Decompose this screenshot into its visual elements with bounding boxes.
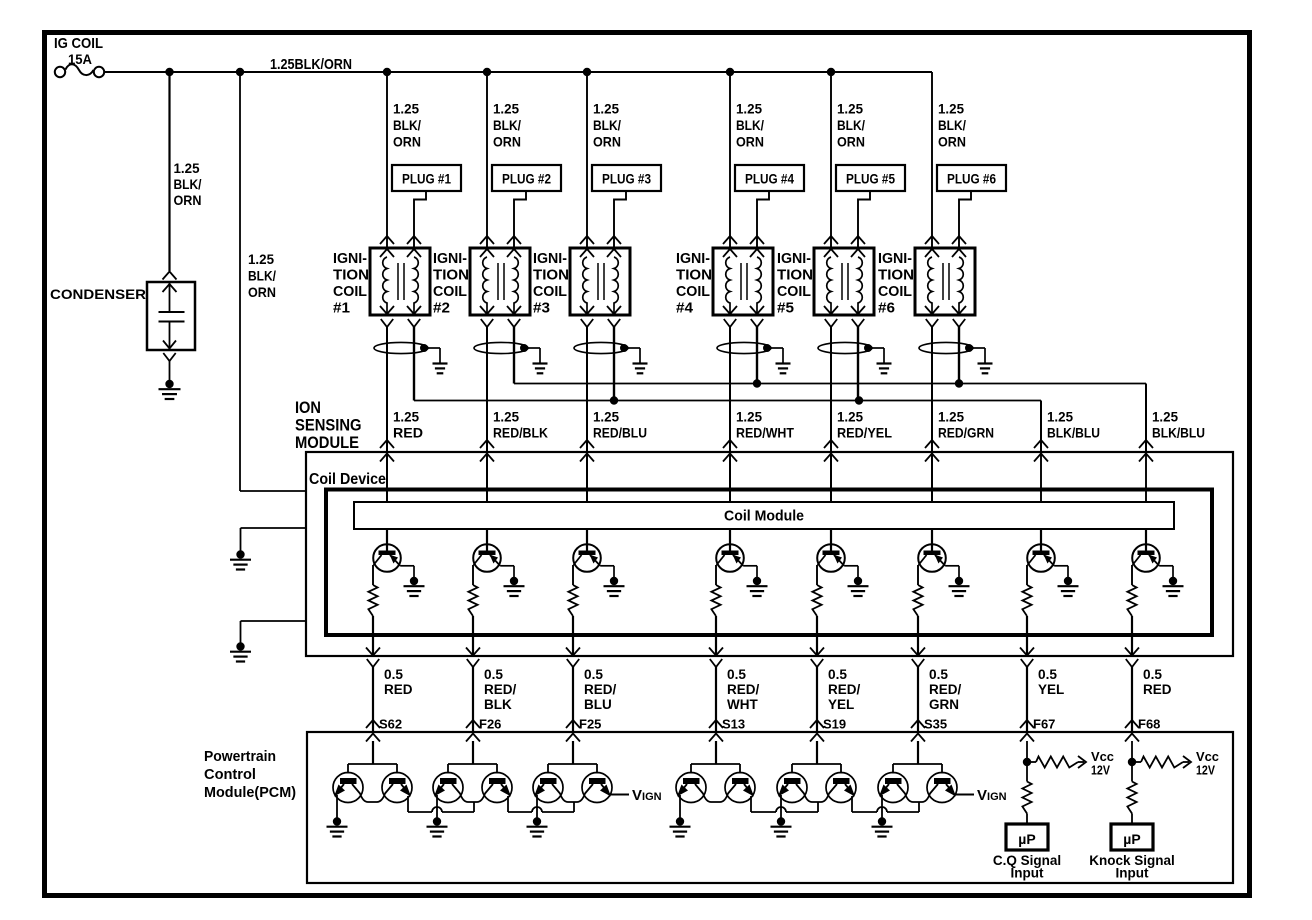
wire: coil module to transistor 2 [486, 529, 488, 551]
svg-text:YEL: YEL [828, 697, 854, 712]
transistor Q19 (PCM) [878, 773, 908, 803]
svg-text:IGNI-: IGNI- [676, 251, 710, 267]
wire: coil #3 return line [613, 327, 615, 401]
connector arrows out of module col 7 [1020, 648, 1034, 656]
connector arrows into coil #5 [824, 236, 838, 244]
connector arrows into PCM pin F25 [566, 720, 580, 728]
svg-text:IGNI-: IGNI- [433, 251, 467, 267]
connector arrows into PCM pin S19 [810, 720, 824, 728]
svg-text:COIL: COIL [433, 284, 467, 300]
svg-text:1.25: 1.25 [938, 409, 964, 425]
svg-text:BLK/: BLK/ [493, 117, 521, 133]
svg-text:PLUG #4: PLUG #4 [745, 172, 794, 187]
svg-text:0.5: 0.5 [384, 667, 403, 682]
wire: rail drop to ignition coil #6 [931, 72, 933, 248]
svg-text:1.25: 1.25 [1152, 409, 1178, 425]
ignition coil T5 box [814, 248, 874, 315]
svg-text:IGNI-: IGNI- [533, 251, 567, 267]
svg-text:BLK/BLU: BLK/BLU [1152, 425, 1205, 441]
ground [410, 577, 418, 585]
svg-text:BLK/: BLK/ [837, 117, 865, 133]
coil #6 core [942, 263, 944, 300]
svg-text:RED/YEL: RED/YEL [837, 425, 892, 441]
svg-text:Coil Module: Coil Module [724, 508, 804, 525]
svg-text:1.25: 1.25 [837, 409, 863, 425]
transistor Q1 (ion module) [373, 544, 401, 572]
wire: plug #2 to coil secondary [514, 191, 526, 248]
wire+ground: Q9 to ground [336, 795, 338, 818]
wire: plug #1 to coil secondary [414, 191, 426, 248]
wire: coil module to transistor 3 [586, 529, 588, 551]
node: rail junction to module supply [236, 68, 244, 76]
wire: Q4 emitter to ground [743, 565, 757, 567]
transistor Q6 (ion module) [918, 544, 946, 572]
coil #4 primary winding [726, 257, 730, 313]
coil #6 bottom pin arrows [925, 306, 939, 314]
ground [854, 577, 862, 585]
svg-text:ORN: ORN [593, 134, 621, 150]
coil #4 core [740, 263, 742, 300]
svg-text:COIL: COIL [878, 284, 912, 300]
transistor Q11 (PCM) [433, 773, 463, 803]
svg-text:COIL: COIL [333, 284, 367, 300]
wire: module output 3 [572, 616, 574, 656]
wire+ground: Q17 to ground [780, 795, 782, 818]
wire+ground: shield of coil #5 [868, 347, 884, 349]
wire: rail to ion sensing module supply [239, 72, 241, 491]
wire: coil module to transistor 1 [386, 529, 388, 551]
svg-text:0.5: 0.5 [584, 667, 603, 682]
svg-text:1.25: 1.25 [938, 101, 964, 117]
svg-text:SENSING: SENSING [295, 417, 362, 435]
connector arrows into PCM pin F67 [1020, 720, 1034, 728]
coil #5 secondary winding [858, 257, 862, 313]
transistor Q18 (PCM) [826, 773, 856, 803]
wire: Q4 collector leg [715, 565, 717, 585]
ignition coil T4 box [713, 248, 773, 315]
svg-text:BLK/BLU: BLK/BLU [1047, 425, 1100, 441]
wire: coil module to transistor 4 [729, 529, 731, 551]
wire: Q6 collector leg [917, 565, 919, 585]
resistor R8 (ion module) [1127, 585, 1136, 616]
connector arrows into PCM pin S35 [911, 720, 925, 728]
svg-text:BLK/: BLK/ [393, 117, 421, 133]
wire: bus A (coils 2,4,6 returns to BLK/BLU col 8) [514, 383, 1146, 385]
node: coil 4 return joins bus A [753, 379, 761, 387]
svg-text:1.25: 1.25 [393, 101, 419, 117]
svg-text:IGNI-: IGNI- [333, 251, 367, 267]
svg-text:1.25: 1.25 [593, 409, 619, 425]
svg-text:TION: TION [533, 268, 569, 284]
transistor Q4 (ion module) [716, 544, 744, 572]
svg-text:1.25: 1.25 [493, 101, 519, 117]
svg-text:Input: Input [1011, 866, 1044, 881]
wire: pair output to next pair [507, 796, 509, 812]
node: shield tap (coil #6) [965, 344, 973, 352]
transistor Q17 (PCM) [777, 773, 807, 803]
coil #1 primary winding [383, 257, 387, 313]
wire+ground: Q13 to ground [536, 795, 538, 818]
wire: pair output to next pair [750, 796, 752, 812]
wire: coil module to transistor 6 [931, 529, 933, 551]
svg-text:IGNI-: IGNI- [878, 251, 912, 267]
svg-text:Vcc: Vcc [1091, 750, 1114, 764]
svg-text:COIL: COIL [676, 284, 710, 300]
resistor R3 (ion module) [568, 585, 577, 616]
ground [878, 817, 886, 825]
node: shield tap (coil #5) [864, 344, 872, 352]
svg-text:TION: TION [333, 268, 369, 284]
node: shield tap (coil #4) [763, 344, 771, 352]
svg-text:0.5: 0.5 [727, 667, 746, 682]
svg-text:RED: RED [393, 425, 423, 441]
wire: PCM input to pair Q15/Q16 [715, 741, 717, 764]
svg-text:RED/: RED/ [484, 682, 517, 697]
transistor Q20 (PCM) [927, 773, 957, 803]
spark plug box PLUG #6 [937, 165, 1006, 191]
connector arrows out of module col 1 [366, 648, 380, 656]
wire+ground: shield of coil #6 [969, 347, 985, 349]
noise shield ellipse (coil #5) [818, 342, 872, 353]
svg-text:0.5: 0.5 [1038, 667, 1057, 682]
coil #4 bottom pin arrows [723, 306, 737, 314]
connector + ground below condenser [163, 353, 175, 361]
ground [676, 817, 684, 825]
wire: pair output to next pair [851, 796, 853, 812]
svg-text:RED/: RED/ [929, 682, 962, 697]
connector arrows out of module col 2 [466, 648, 480, 656]
connector arrows out of module col 6 [911, 648, 925, 656]
wire: coil #5 return line [857, 327, 859, 401]
svg-text:RED/BLU: RED/BLU [593, 425, 647, 441]
module left ground stub 1 [241, 527, 307, 529]
condenser C1 [163, 272, 177, 280]
svg-text:#3: #3 [533, 301, 550, 317]
svg-text:S13: S13 [722, 717, 745, 732]
wire: Q8 emitter to ground [1159, 565, 1173, 567]
svg-text:15A: 15A [68, 51, 92, 67]
module left ground stub 2 [241, 620, 307, 622]
svg-text:Vcc: Vcc [1196, 750, 1219, 764]
svg-text:1.25: 1.25 [493, 409, 519, 425]
wire: emitters of Q11/Q12 [452, 784, 493, 802]
svg-text:µP: µP [1018, 831, 1035, 847]
ground [333, 817, 341, 825]
svg-text:1.25: 1.25 [736, 101, 762, 117]
svg-text:RED/WHT: RED/WHT [736, 425, 794, 441]
fuse F1 IG COIL 15A [55, 67, 65, 77]
wire: coil #4 ion sense line down [729, 327, 731, 502]
node: shield tap (coil #2) [520, 344, 528, 352]
ground [610, 577, 618, 585]
spark plug box PLUG #3 [592, 165, 661, 191]
connector arrows into module col 6 [925, 440, 939, 448]
coil #5 bottom pin arrows [824, 306, 838, 314]
svg-text:0.5: 0.5 [929, 667, 948, 682]
svg-text:RED/: RED/ [584, 682, 617, 697]
svg-text:RED/GRN: RED/GRN [938, 425, 994, 441]
transistor Q14 (PCM) [582, 773, 612, 803]
wire: coil module to transistor 5 [830, 529, 832, 551]
svg-text:#2: #2 [433, 301, 450, 317]
connector arrows into coil #2 [480, 236, 494, 244]
connector arrows into coil #4 [723, 236, 737, 244]
svg-text:BLU: BLU [584, 697, 612, 712]
wire: rail drop to ignition coil #2 [483, 68, 491, 76]
wire: emitters of Q17/Q18 [796, 784, 837, 802]
ground [236, 642, 244, 650]
connector arrows out of module col 8 [1125, 648, 1139, 656]
wire+ground: shield of coil #3 [624, 347, 640, 349]
svg-text:PLUG #3: PLUG #3 [602, 172, 651, 187]
node F67 [1023, 758, 1031, 766]
node: coil 5 return joins bus B [855, 396, 863, 404]
ground [753, 577, 761, 585]
wire: F68 input [1131, 741, 1133, 782]
transistor Q3 (ion module) [573, 544, 601, 572]
noise shield ellipse (coil #3) [574, 342, 628, 353]
coil #2 core [497, 263, 499, 300]
wire+ground: shield of coil #4 [767, 347, 783, 349]
svg-text:1.25: 1.25 [1047, 409, 1073, 425]
coil #5 primary winding [827, 257, 831, 313]
connector arrows into module col 5 [824, 440, 838, 448]
svg-text:1.25: 1.25 [837, 101, 863, 117]
resistor (series to uP) [1022, 782, 1031, 814]
wire: Q5 collector leg [816, 565, 818, 585]
coil #3 core [597, 263, 599, 300]
wire: coil #3 ion sense line down [586, 327, 588, 502]
connector arrows out of module col 5 [810, 648, 824, 656]
resistor R6 (ion module) [913, 585, 922, 616]
wire: PCM input to pair Q11/Q12 [472, 741, 474, 764]
connector arrows into coil #1 [380, 236, 394, 244]
ground [777, 817, 785, 825]
svg-text:Powertrain: Powertrain [204, 749, 276, 765]
coil #6 secondary winding [959, 257, 963, 313]
coil #3 secondary winding [614, 257, 618, 313]
inner shield box (thick) [326, 490, 1212, 636]
wire: module col 7 inside [1040, 452, 1042, 502]
ground [1064, 577, 1072, 585]
ground [1169, 577, 1177, 585]
wire+ground: shield of coil #1 [424, 347, 440, 349]
wire: module output 6 [917, 616, 919, 656]
svg-text:#5: #5 [777, 301, 794, 317]
wire: Q1 emitter to ground [400, 565, 414, 567]
svg-text:ORN: ORN [938, 134, 966, 150]
coil #1 bottom pin arrows [380, 306, 394, 314]
svg-text:ORN: ORN [493, 134, 521, 150]
coil #1 secondary winding [414, 257, 418, 313]
svg-text:12V: 12V [1091, 764, 1111, 778]
connector arrows out of module col 3 [566, 648, 580, 656]
wire: module output 7 [1026, 616, 1028, 656]
svg-text:PLUG #2: PLUG #2 [502, 172, 551, 187]
svg-text:IGNI-: IGNI- [777, 251, 811, 267]
wire: coil #2 ion sense line down [486, 327, 488, 502]
uP box (F67) [1006, 824, 1048, 850]
transistor Q12 (PCM) [482, 773, 512, 803]
wire: Q7 collector leg [1026, 565, 1028, 585]
wire: Q8 collector leg [1131, 565, 1133, 585]
svg-text:RED: RED [1143, 682, 1172, 697]
wire: plug #6 to coil secondary [959, 191, 971, 248]
wire: Q3 collector leg [572, 565, 574, 585]
connector arrows into module col 7 [1034, 440, 1048, 448]
svg-text:RED/: RED/ [828, 682, 861, 697]
svg-text:12V: 12V [1196, 764, 1216, 778]
svg-text:TION: TION [433, 268, 469, 284]
spark plug box PLUG #1 [392, 165, 461, 191]
spark plug box PLUG #2 [492, 165, 561, 191]
svg-text:F26: F26 [479, 717, 501, 732]
wire to VIGN [955, 794, 974, 796]
svg-text:S19: S19 [823, 717, 846, 732]
wire: emitters of Q19/Q20 [897, 784, 938, 802]
svg-text:Input: Input [1116, 866, 1149, 881]
svg-text:Module(PCM): Module(PCM) [204, 785, 296, 801]
resistor R7 (ion module) [1022, 585, 1031, 616]
connector arrows out of module col 4 [709, 648, 723, 656]
coil #4 secondary winding [757, 257, 761, 313]
svg-text:#1: #1 [333, 301, 350, 317]
ignition coil T1 box [370, 248, 430, 315]
connector arrows into PCM pin F26 [466, 720, 480, 728]
node F68 [1128, 758, 1136, 766]
wire+ground: shield of coil #2 [524, 347, 540, 349]
svg-text:1.25: 1.25 [593, 101, 619, 117]
wire: plug #4 to coil secondary [757, 191, 769, 248]
wire: Q3 emitter to ground [600, 565, 614, 567]
wire: F67 input [1026, 741, 1028, 782]
wire: Q5 emitter to ground [844, 565, 858, 567]
svg-text:1.25: 1.25 [174, 160, 200, 176]
svg-text:IG COIL: IG COIL [54, 35, 103, 52]
resistor (pull-up to VCC) [1027, 761, 1036, 763]
svg-text:MODULE: MODULE [295, 434, 359, 452]
wire: PCM input to pair Q9/Q10 [372, 741, 374, 764]
svg-text:F68: F68 [1138, 717, 1160, 732]
svg-text:YEL: YEL [1038, 682, 1064, 697]
wire: Q2 emitter to ground [500, 565, 514, 567]
svg-text:ION: ION [295, 399, 321, 417]
coil module box [354, 502, 1174, 529]
svg-text:µP: µP [1123, 831, 1140, 847]
svg-text:CONDENSER: CONDENSER [50, 286, 146, 302]
arrow to VCC [1078, 756, 1086, 768]
transistor Q8 (ion module) [1132, 544, 1160, 572]
wire: coil #4 return line [756, 327, 758, 384]
svg-text:1.25: 1.25 [736, 409, 762, 425]
wire: coil #6 ion sense line down [931, 327, 933, 502]
transistor Q15 (PCM) [676, 773, 706, 803]
svg-text:#6: #6 [878, 301, 895, 317]
wire: plug #3 to coil secondary [614, 191, 626, 248]
wire: emitters of Q9/Q10 [352, 784, 393, 802]
wire: coil #1 return line [413, 327, 415, 401]
transistor Q5 (ion module) [817, 544, 845, 572]
svg-text:COIL: COIL [777, 284, 811, 300]
transistor Q13 (PCM) [533, 773, 563, 803]
wire: module output 2 [472, 616, 474, 656]
uP box (F68) [1111, 824, 1153, 850]
resistor R4 (ion module) [711, 585, 720, 616]
connector arrows into coil #3 [580, 236, 594, 244]
svg-text:WHT: WHT [727, 697, 758, 712]
wire: PCM input to pair Q13/Q14 [572, 741, 574, 764]
svg-text:#4: #4 [676, 301, 693, 317]
wire: module output 5 [816, 616, 818, 656]
svg-text:0.5: 0.5 [484, 667, 503, 682]
wire: coil #6 return line [958, 327, 960, 384]
ground [955, 577, 963, 585]
svg-text:PLUG #5: PLUG #5 [846, 172, 895, 187]
svg-text:ORN: ORN [174, 192, 202, 208]
module box U1: Coil Device [306, 452, 1233, 656]
svg-text:1.25: 1.25 [248, 251, 274, 267]
coil #3 primary winding [583, 257, 587, 313]
node: coil 6 return joins bus A [955, 379, 963, 387]
noise shield ellipse (coil #6) [919, 342, 973, 353]
noise shield ellipse (coil #4) [717, 342, 771, 353]
wire: Q7 emitter to ground [1054, 565, 1068, 567]
svg-text:COIL: COIL [533, 284, 567, 300]
noise shield ellipse (coil #1) [374, 342, 428, 353]
svg-text:F25: F25 [579, 717, 601, 732]
svg-text:ORN: ORN [837, 134, 865, 150]
spark plug box PLUG #4 [735, 165, 804, 191]
wire: top 12V rail [105, 71, 933, 73]
node: shield tap (coil #3) [620, 344, 628, 352]
wire+ground: Q11 to ground [436, 795, 438, 818]
wire: coil #5 ion sense line down [830, 327, 832, 502]
svg-text:TION: TION [878, 268, 914, 284]
ground [533, 817, 541, 825]
coil #2 primary winding [483, 257, 487, 313]
wire: emitters of Q13/Q14 [552, 784, 593, 802]
wire: coil #2 return line [513, 327, 515, 384]
wire: coil module to transistor 8 [1145, 529, 1147, 551]
svg-text:0.5: 0.5 [1143, 667, 1162, 682]
svg-text:0.5: 0.5 [828, 667, 847, 682]
svg-text:S35: S35 [924, 717, 947, 732]
svg-text:TION: TION [676, 268, 712, 284]
wire: Q6 emitter to ground [945, 565, 959, 567]
wire: rail drop to ignition coil #3 [583, 68, 591, 76]
arrow to VCC [1183, 756, 1191, 768]
wire: module col 8 inside [1145, 452, 1147, 502]
resistor (series to uP) [1127, 782, 1136, 814]
ground (condenser) [165, 380, 173, 388]
svg-text:ORN: ORN [248, 284, 276, 300]
svg-text:BLK/: BLK/ [938, 117, 966, 133]
svg-text:PLUG #1: PLUG #1 [402, 172, 451, 187]
connector arrows into module col 3 [580, 440, 594, 448]
resistor (pull-up to VCC) [1132, 761, 1141, 763]
module box U2: Powertrain Control Module (PCM) [307, 732, 1233, 883]
connector arrows into module col 1 [380, 440, 394, 448]
svg-text:BLK/: BLK/ [736, 117, 764, 133]
node: shield tap (coil #1) [420, 344, 428, 352]
wire to VIGN [610, 794, 629, 796]
wire+ground: Q19 to ground [881, 795, 883, 818]
spark plug box PLUG #5 [836, 165, 905, 191]
transistor Q7 (ion module) [1027, 544, 1055, 572]
node: coil 3 return joins bus B [610, 396, 618, 404]
wire: rail to condenser [168, 72, 170, 271]
coil #2 secondary winding [514, 257, 518, 313]
